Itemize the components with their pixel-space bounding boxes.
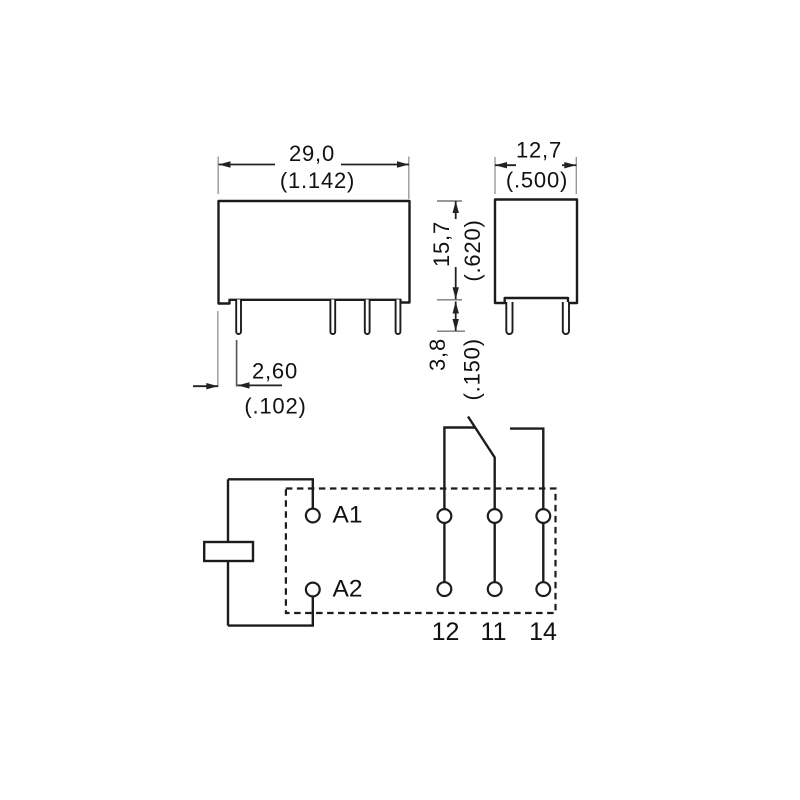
terminal A1 — [306, 509, 320, 523]
svg-text:29,0: 29,0 — [289, 141, 335, 166]
svg-text:12,7: 12,7 — [516, 138, 562, 163]
NC fixed contact (pin 12) L-bar and drop wire — [444, 428, 476, 510]
dimension 2,60 right arrow line — [238, 384, 283, 386]
dimension 12,7 arrow left — [495, 162, 507, 168]
wire coil top vertical — [227, 479, 229, 542]
coil K1 — [204, 542, 253, 561]
svg-text:12: 12 — [432, 618, 460, 646]
dimension 29,0 extension line right — [408, 157, 410, 200]
node 14 lower terminal — [536, 582, 550, 596]
dimension 3,8 line — [455, 302, 457, 332]
node 14 upper terminal — [536, 509, 550, 523]
wire top horizontal to A1 — [228, 479, 313, 508]
relay body side outline — [495, 200, 577, 304]
svg-text:A1: A1 — [333, 502, 363, 529]
dashed package outline box — [286, 489, 556, 614]
dimension 2,60 left arrow line — [193, 385, 218, 387]
pin left (side view) — [506, 302, 512, 334]
dimension 3,8 extension tick bottom — [437, 330, 465, 332]
dimension 12,7 extension line right — [575, 157, 577, 194]
dimension 12,7 line right segment — [562, 164, 576, 166]
dimension 12,7 arrow right — [564, 162, 576, 168]
dimension 12,7 line left segment — [495, 164, 516, 166]
svg-text:(1.142): (1.142) — [280, 168, 355, 193]
dimension 15,7 line top segment — [455, 201, 457, 219]
movable contact blade (pin 11) — [468, 417, 495, 510]
svg-text:(.150): (.150) — [459, 338, 484, 400]
dimension 12,7 extension line left — [494, 157, 496, 194]
terminal A2 — [306, 583, 320, 597]
dimension 15,7 extension tick bottom — [437, 299, 462, 301]
dimension 29,0 line left segment — [219, 164, 276, 166]
dimension 2,60 right arrowhead — [238, 382, 250, 388]
pin 4 (front view) — [396, 300, 401, 335]
svg-text:A2: A2 — [333, 576, 363, 603]
dimension 29,0 arrow right — [397, 161, 409, 167]
svg-text:15,7: 15,7 — [429, 221, 454, 267]
dimension 3,8 arrow down — [453, 319, 459, 331]
wire 11 between terminals — [494, 523, 496, 582]
wire coil bottom vertical — [227, 561, 229, 626]
dimension 2,60 left arrowhead — [206, 383, 218, 389]
dimension 15,7 arrow up — [453, 201, 459, 213]
dimension 15,7 arrow down — [453, 287, 459, 299]
svg-text:11: 11 — [481, 618, 507, 646]
dimension 15,7 line bottom segment — [455, 267, 457, 299]
pin 3 (front view) — [365, 300, 370, 335]
node 11 upper terminal — [488, 509, 502, 523]
dimension 2,60 extension from body left edge — [217, 311, 219, 387]
wire bottom horizontal to A2 — [228, 596, 313, 625]
svg-text:2,60: 2,60 — [252, 359, 298, 384]
NO fixed contact (pin 14) L-bar and drop wire — [510, 429, 543, 509]
dimension 29,0 extension line left — [217, 157, 219, 195]
svg-text:(.500): (.500) — [506, 168, 568, 193]
relay body front outline — [219, 201, 410, 304]
svg-text:14: 14 — [529, 618, 557, 646]
dimension 2,60 extension from pin 1 — [236, 340, 238, 387]
dimension 29,0 line right segment — [341, 164, 409, 166]
svg-text:(.102): (.102) — [244, 394, 306, 419]
node 11 lower terminal — [488, 582, 502, 596]
dimension 15,7 extension tick top — [437, 200, 462, 202]
node 12 upper terminal — [438, 509, 452, 523]
node 12 lower terminal — [438, 582, 452, 596]
pin 2 (front view) — [330, 300, 335, 335]
dimension 29,0 arrow left — [219, 161, 231, 167]
pin 1 (front view) — [236, 300, 241, 335]
wire 14 between terminals — [542, 523, 544, 582]
dimension 3,8 arrow up — [453, 302, 459, 314]
svg-text:3,8: 3,8 — [425, 338, 450, 371]
svg-text:(.620): (.620) — [460, 219, 485, 281]
pin right (side view) — [563, 302, 569, 334]
wire 12 between terminals — [443, 523, 445, 582]
